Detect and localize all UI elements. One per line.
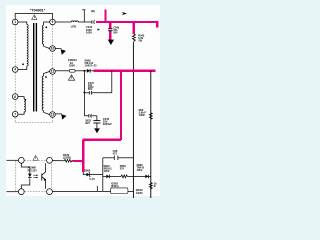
opto LED wiring: [21, 163, 30, 173]
capacitor C045 electrolytic: [96, 116, 98, 121]
ground arrow (terminal 13): [61, 114, 66, 119]
junction node (C047): [83, 92, 85, 94]
wire mid vertical from junction: [84, 71, 86, 116]
resistor R063: [121, 175, 133, 178]
fuse F06015: [69, 69, 75, 72]
wire magenta stub to R043: [133, 22, 135, 34]
svg-text:100V: 100V: [137, 169, 143, 172]
warning triangle (transformer): [32, 15, 37, 20]
svg-text:50V: 50V: [113, 32, 118, 35]
capacitor C042: [91, 20, 93, 24]
svg-text:12: 12: [51, 70, 55, 74]
svg-text:4: 4: [14, 68, 16, 72]
svg-text:D065: D065: [84, 168, 91, 172]
terminal 12: [50, 69, 56, 75]
magenta net: secondary rectified rail: [73, 71, 156, 172]
wire magenta mid horizontal: [94, 70, 156, 72]
ground (C045): [94, 128, 100, 133]
capacitor C043 plates: [108, 29, 112, 31]
svg-text:LPB: LPB: [71, 25, 76, 29]
secondary winding 12-13: [44, 72, 50, 77]
transformer top bracket: [15, 14, 52, 20]
svg-text:13: 13: [51, 113, 55, 117]
wire terminal 9 to LPB: [56, 21, 72, 23]
wire terminal 10 stub: [55, 48, 61, 50]
wire bus A vertical: [132, 42, 134, 198]
svg-text:473: 473: [113, 151, 118, 155]
zener D065: [82, 172, 84, 175]
svg-text:6: 6: [14, 95, 16, 99]
svg-text:B: B: [154, 184, 156, 188]
resistor R06 (on bus B): [149, 113, 152, 119]
transformer T04901 dashed block border: [15, 25, 52, 122]
wire magenta stub up: [104, 9, 106, 22]
resistor R049: [64, 159, 73, 162]
svg-text:1/2W): 1/2W): [136, 192, 143, 195]
opto terminal top-right: [47, 157, 53, 163]
svg-text:10: 10: [51, 47, 55, 51]
wire opto bottom to ladder: [52, 190, 133, 192]
opto terminal bottom-left: [18, 189, 24, 195]
svg-text:(6401): (6401): [111, 184, 119, 188]
svg-text:(1/2W): (1/2W): [63, 155, 71, 159]
flow arrow on B+ rail: [122, 12, 127, 15]
polarity dot winding 6-7: [25, 99, 27, 101]
ground (C043): [108, 40, 114, 45]
terminal 6: [12, 94, 18, 100]
wire magenta riser to zener: [82, 140, 84, 172]
opto terminal bottom-right: [47, 189, 53, 195]
wire magenta down to C043: [109, 22, 111, 29]
node (B) tick: [83, 10, 85, 22]
resistor R043 (vertical zigzag): [132, 34, 135, 42]
opto left stubs: [7, 159, 19, 161]
wire bus B vertical: [150, 71, 152, 198]
polarity dot winding 1-4: [22, 63, 24, 65]
svg-text:1/2W: 1/2W: [139, 113, 146, 117]
svg-text:50V: 50V: [88, 88, 93, 91]
inductor LPB: [71, 21, 78, 22]
wire magenta lower horizontal: [82, 139, 121, 141]
svg-text:250V: 250V: [69, 63, 75, 67]
wire magenta vertical drop: [120, 71, 122, 140]
polarity dot winding 9-10: [45, 26, 47, 28]
svg-text:270: 270: [120, 168, 125, 171]
svg-text:1: 1: [14, 20, 16, 24]
IC063 block: [111, 188, 128, 194]
opto terminal top-left: [18, 157, 24, 163]
junction node: [83, 70, 85, 72]
polarity dot winding 12-13: [45, 76, 47, 78]
wire opto to R049: [52, 160, 64, 162]
primary winding 1-4: [18, 22, 27, 25]
capacitor C048 rung: [84, 115, 89, 117]
wire terminal 13 stub: [56, 113, 62, 115]
svg-text:9: 9: [52, 20, 54, 24]
magenta net: main B+ rail top: [96, 9, 159, 40]
svg-text:5.1V: 5.1V: [90, 177, 96, 181]
tick node: [96, 186, 98, 192]
opto LED: [28, 174, 32, 178]
wire magenta top horizontal: [96, 21, 159, 23]
secondary winding 9-10: [44, 22, 50, 25]
svg-text:1A03Y+75: 1A03Y+75: [85, 65, 97, 68]
svg-text:100V: 100V: [104, 170, 110, 173]
ladder left rail: [102, 158, 104, 192]
wire magenta from R049: [73, 160, 84, 162]
optocoupler dashed box: [16, 160, 52, 191]
warning triangle (optocoupler): [33, 155, 38, 160]
opto light arrows: [33, 174, 36, 176]
primary winding 6-7: [18, 97, 24, 99]
terminal 10: [50, 46, 56, 52]
wire fuse to D04: [75, 70, 87, 72]
terminal 9: [50, 19, 56, 25]
svg-text:100V: 100V: [86, 30, 92, 34]
rung 1 with capacitor 473: [103, 157, 115, 159]
resistor (lower, on bus B): [149, 182, 152, 190]
transformer core: [34, 23, 37, 112]
svg-text:“T04901”: “T04901”: [30, 9, 46, 13]
svg-text:(B): (B): [91, 9, 95, 13]
wire terminal 12 to fuse: [56, 70, 70, 72]
wire magenta elbow down at right end: [156, 22, 158, 27]
opto phototransistor: [41, 174, 43, 181]
terminal 13: [50, 112, 56, 118]
wire rung2 right + diode D808: [133, 175, 145, 177]
svg-text:PC123Y: PC123Y: [28, 169, 38, 172]
rung 2: diode D810: [103, 175, 107, 177]
wire LPB to C042: [78, 21, 91, 23]
svg-text:2200uF: 2200uF: [103, 122, 112, 126]
ground arrow (terminal 10): [61, 49, 66, 55]
terminal 1: [12, 19, 18, 25]
terminal 7: [12, 111, 18, 117]
svg-text:7: 7: [14, 112, 16, 116]
svg-text:1W: 1W: [138, 40, 142, 43]
svg-text:2kV: 2kV: [85, 121, 90, 125]
page background margin: [0, 0, 170, 200]
terminal 4: [12, 67, 18, 73]
capacitor C047: [84, 92, 89, 94]
warning triangle (fuse): [68, 75, 74, 80]
diode D04: [87, 69, 90, 73]
drawing area: [6, 5, 160, 196]
